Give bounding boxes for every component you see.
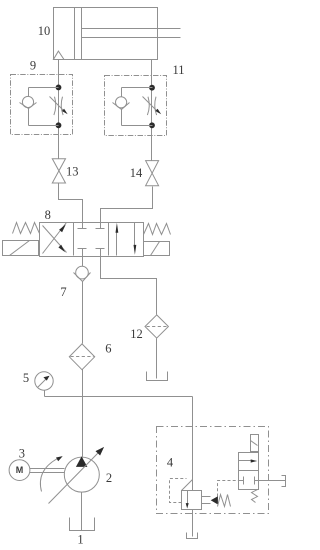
plugged port line right: [259, 476, 286, 487]
svg-text:9: 9: [30, 58, 36, 72]
wire cylinder right port to valve 14: [151, 60, 153, 161]
svg-text:4: 4: [167, 455, 174, 469]
filter 6: [69, 344, 94, 370]
svg-text:11: 11: [172, 63, 184, 77]
wire valve 13 to valve 8 port A: [59, 183, 83, 223]
wire filter 12 to tank: [156, 339, 158, 379]
motor 3: [9, 460, 30, 481]
solenoid valve open position arrow: [239, 459, 258, 462]
valve 8 right position straight arrows: [116, 223, 137, 256]
solenoid valve spring: [252, 490, 258, 503]
throttle valve (box 11) adjust arrow: [143, 97, 162, 115]
svg-text:1: 1: [77, 533, 83, 547]
valve 8 center position blocked port stubs: [78, 223, 105, 256]
motor shaft: [30, 469, 65, 473]
valve 8 right solenoid box: [144, 242, 170, 256]
svg-text:2: 2: [106, 471, 112, 485]
throttle valve (box 9) adjust arrow: [50, 97, 68, 115]
check valve branch wires (box 9): [29, 88, 59, 126]
svg-text:8: 8: [45, 208, 51, 222]
check valve (box 9): [20, 96, 37, 108]
relief poppet triangle: [211, 496, 218, 504]
pump 2 variable displacement arrow: [49, 447, 105, 504]
tank under filter 12: [147, 372, 168, 381]
wire pressure branch (gauge junction to relief block): [45, 397, 193, 491]
wire pump 2 to tank 1: [81, 493, 83, 531]
solenoid valve blocked position stubs: [239, 477, 259, 485]
svg-text:5: 5: [23, 371, 29, 385]
solenoid box (valve in block 4): [251, 435, 259, 452]
svg-text:7: 7: [60, 285, 66, 299]
node junction dot top (box 11): [149, 85, 155, 91]
wire valve 8 T port to filter 12: [101, 256, 157, 315]
wire valve 14 to valve 8 port B: [101, 187, 153, 223]
relief spring: [218, 495, 231, 507]
node junction dot top (box 9): [56, 85, 62, 91]
solenoid unload valve body: [239, 453, 259, 490]
valve 8 left position crossed arrows: [43, 223, 67, 254]
svg-text:6: 6: [105, 341, 111, 355]
cartridge relief valve body: [182, 491, 202, 510]
wire check valve 7 to filter 6: [82, 282, 84, 344]
cylinder 10 port marker triangle: [53, 51, 64, 59]
wire filter 6 to pump 2: [82, 370, 84, 458]
wire cylinder left port to valve 13: [58, 60, 60, 159]
pressure gauge 5: [35, 372, 53, 397]
pilot line dashed loop (cartridge left): [170, 479, 187, 503]
throttle valve (box 11) arcs: [147, 97, 156, 115]
check valve branch wires (box 11): [122, 88, 153, 126]
cylinder 10 body: [54, 8, 158, 60]
valve 8 left solenoid box: [3, 241, 39, 256]
tank under block 4: [187, 533, 198, 539]
cylinder 10 rod: [82, 29, 181, 38]
shut-off valve 13: [52, 159, 65, 183]
svg-text:13: 13: [66, 165, 79, 179]
check valve 7: [74, 266, 91, 281]
rotation direction arrow: [40, 456, 62, 491]
directional valve 8 body: [40, 223, 144, 257]
wire valve 8 P port to check valve 7: [82, 256, 84, 267]
cylinder 10 piston: [75, 8, 82, 60]
check valve (box 11): [113, 97, 130, 110]
throttle valve (box 9) arcs: [54, 97, 63, 115]
svg-text:10: 10: [38, 24, 51, 38]
svg-text:14: 14: [130, 166, 143, 180]
node junction dot bottom (box 9): [56, 122, 62, 128]
valve 8 left spring: [13, 223, 40, 234]
shut-off valve 14: [146, 161, 159, 186]
wire cartridge valve to tank (block 4): [192, 510, 194, 537]
tank 1: [70, 518, 95, 531]
flow control box 11 (dashed enclosure): [105, 76, 167, 136]
relief block 4 (dash-dot enclosure): [157, 427, 269, 514]
pilot line dashed to solenoid valve: [218, 481, 239, 497]
relief spring seat channel: [202, 497, 211, 504]
svg-text:M: M: [16, 465, 24, 475]
filter 12: [145, 315, 168, 338]
node junction dot bottom (box 11): [149, 122, 155, 128]
pump 2: [64, 456, 99, 492]
valve 8 right spring: [144, 224, 171, 235]
pilot line diagonal (cartridge): [182, 480, 193, 491]
flow control box 9 (dashed enclosure): [11, 75, 73, 135]
svg-text:12: 12: [130, 327, 143, 341]
svg-text:3: 3: [19, 447, 25, 461]
